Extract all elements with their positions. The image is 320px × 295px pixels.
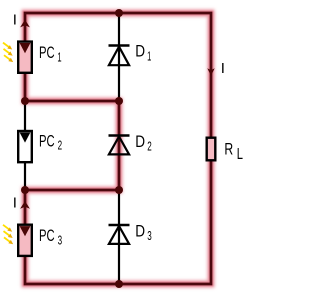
wire: black segment D1 branch (119,13)-(119,101) — [118, 13, 120, 101]
svg-text:I: I — [13, 11, 17, 28]
junction node B left (25,190) — [21, 186, 29, 194]
junction node A middle (119,101) — [115, 97, 123, 105]
wire current-path halo inner layer — [25, 13, 211, 284]
bypass diode D3 — [109, 225, 130, 244]
svg-text:D: D — [135, 132, 145, 151]
sun ray arrows on PC1 — [3, 43, 13, 63]
svg-text:2: 2 — [147, 139, 152, 153]
wire: black segment PC2 branch (25,101)-(25,190) — [24, 101, 26, 190]
wire current-path halo (pink highlight along conducting loop) — [25, 13, 211, 284]
current arrow right branch (pointing down) — [207, 68, 214, 76]
svg-text:PC: PC — [39, 43, 55, 62]
bypass diode D1 — [109, 46, 130, 66]
photovoltaic cell PC2 (shaded) — [18, 131, 32, 162]
svg-text:I: I — [221, 60, 225, 77]
svg-text:PC: PC — [39, 131, 55, 150]
svg-text:2: 2 — [58, 139, 63, 153]
svg-text:D: D — [135, 222, 145, 241]
svg-text:3: 3 — [58, 234, 63, 248]
junction node top of diode branch (119,13) — [115, 9, 123, 17]
current arrow above PC3 (pointing up) — [20, 201, 30, 209]
svg-text:I: I — [13, 195, 17, 212]
junction node bottom of diode branch (119,284) — [115, 280, 123, 288]
wire: black segment D3 branch (119,190)-(119,284) — [118, 190, 120, 284]
photovoltaic cell PC1 (illuminated) — [18, 42, 32, 73]
photovoltaic cell PC3 (illuminated) — [18, 225, 32, 256]
svg-text:1: 1 — [57, 51, 61, 65]
svg-text:D: D — [135, 41, 145, 60]
svg-text:PC: PC — [39, 226, 55, 245]
sun ray arrows on PC3 — [3, 225, 13, 245]
junction node A left (25,101) — [21, 97, 29, 105]
bypass diode D2 — [109, 136, 130, 155]
junction node B middle (119,190) — [115, 186, 123, 194]
svg-text:R: R — [224, 139, 233, 158]
svg-text:3: 3 — [147, 229, 152, 243]
wire: left branch highlighted (through PC1 and PC3) and outer loop, dark red — [25, 13, 211, 284]
svg-text:1: 1 — [147, 50, 151, 64]
svg-text:L: L — [237, 146, 243, 163]
current arrow above PC1 (pointing up) — [20, 20, 30, 28]
load resistor RL — [207, 138, 216, 161]
